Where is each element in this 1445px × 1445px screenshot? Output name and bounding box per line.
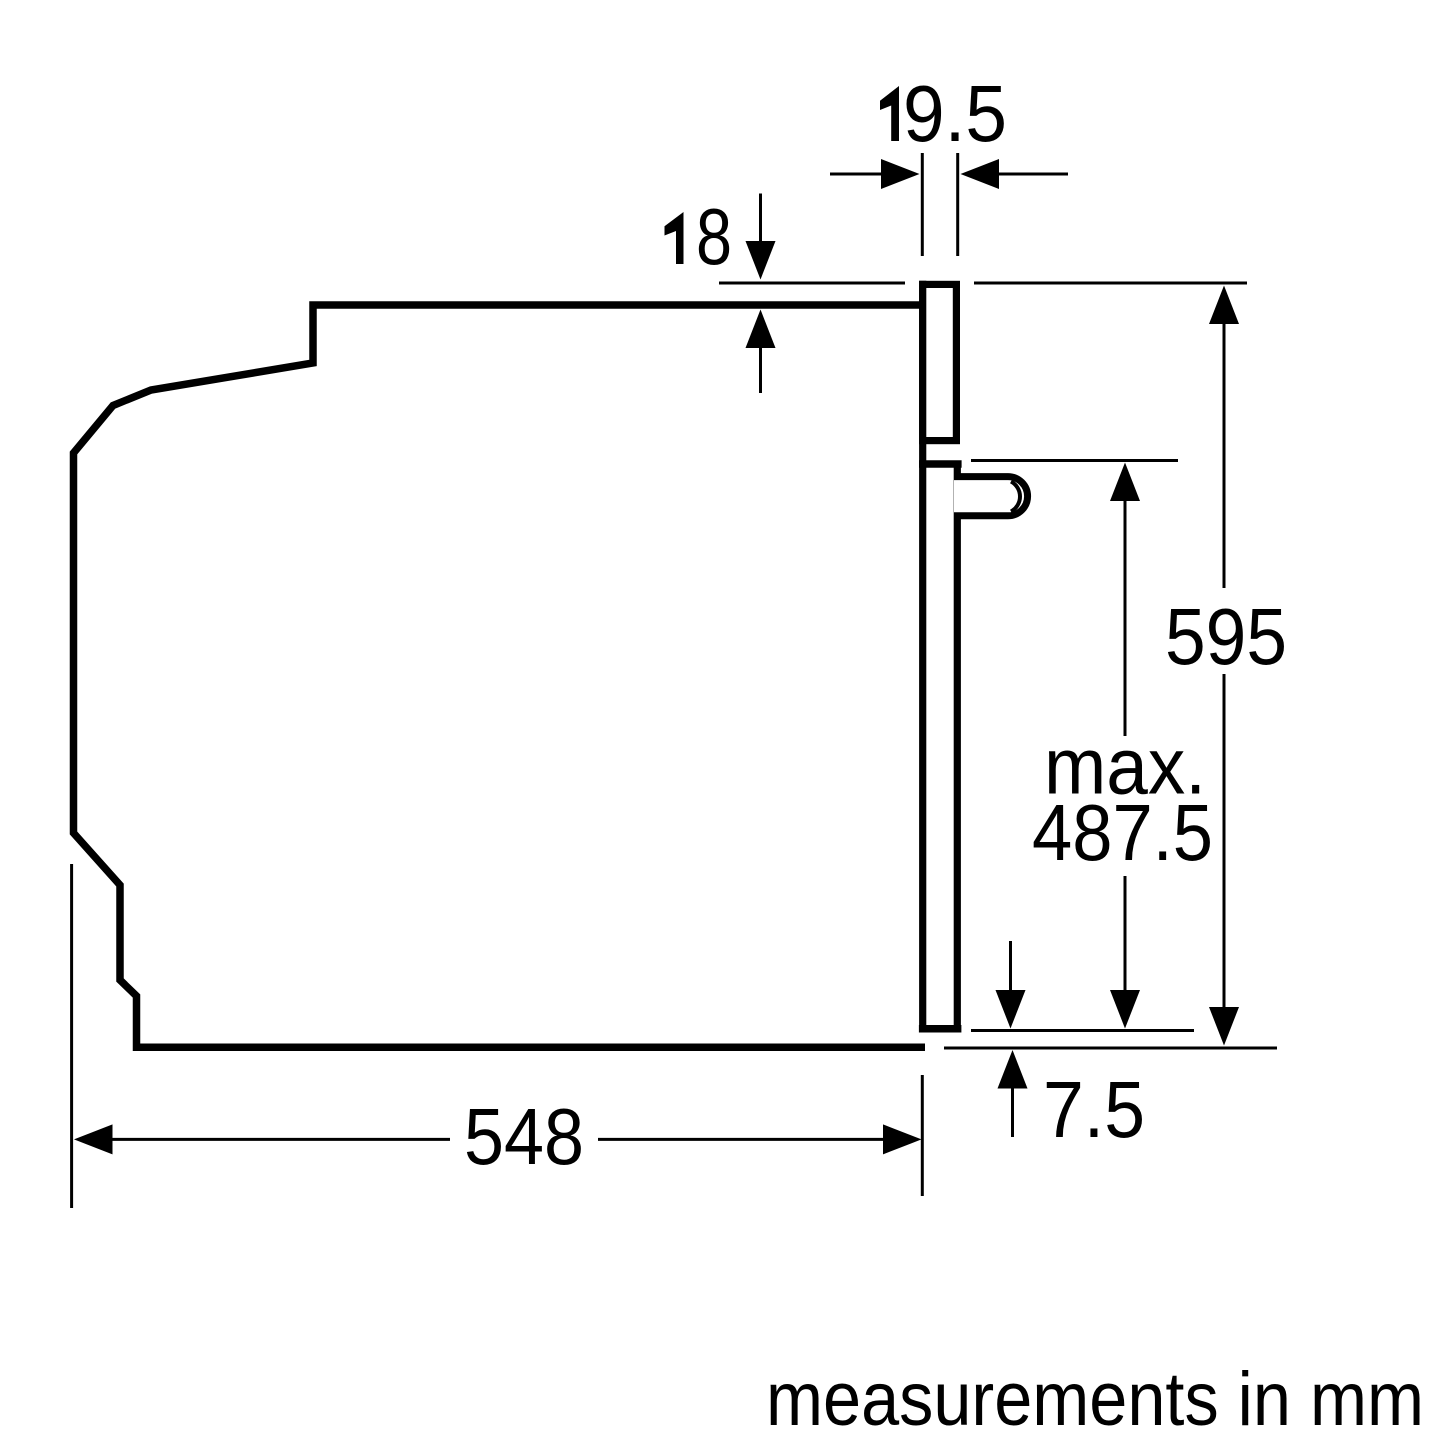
door front vertical [954,464,961,1029]
extension line door bottom ref [971,1029,1194,1032]
svg-text:7.5: 7.5 [1043,1065,1145,1154]
svg-text:487.5: 487.5 [1032,788,1213,877]
oven body outline [74,305,926,1047]
extension line 19.5 right [956,153,959,256]
svg-text:measurements in mm: measurements in mm [766,1357,1424,1442]
svg-text:595: 595 [1165,592,1287,681]
dim 18 down arrow [759,194,762,246]
handle [954,477,1028,516]
dim 595 line lower [1223,674,1226,1009]
label 18 [665,212,684,264]
extension line 19.5 left [921,153,924,256]
extension line top of door right (595 ref) [974,282,1247,285]
oven front face vertical [919,281,926,1033]
extension line oven bottom ref [944,1047,1277,1050]
svg-text:548: 548 [464,1092,584,1181]
label 19.5 [880,86,899,141]
svg-text:8: 8 [696,192,732,281]
dim 595 line upper [1209,286,1239,325]
dim 548 right arrow [598,1138,885,1141]
dim 7.5 down arrow [1009,941,1012,992]
door top panel [923,284,957,440]
svg-text:9.5: 9.5 [903,69,1007,158]
dim 548 left arrow [74,1124,113,1154]
extension line 548 left [70,864,73,1208]
door front step top [919,460,962,468]
door bottom edge [919,1025,962,1033]
handle end cap arc [1011,482,1020,512]
dim 19.5 right arrow [998,173,1068,176]
dim 19.5 left arrow [830,173,883,176]
dim 7.5 up arrow [998,1050,1028,1089]
dim 487.5 line upper [1110,463,1140,502]
dim 487.5 line lower [1124,876,1127,991]
extension line 548 right [921,1075,924,1196]
dim 18 up arrow [759,347,762,393]
extension line top of door left (18 ref) [719,282,905,285]
extension line 487.5 top ref [971,459,1178,462]
